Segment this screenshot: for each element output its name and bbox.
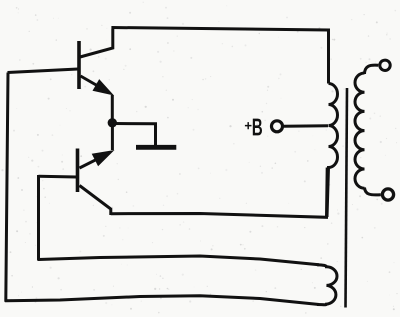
- wire feedback winding bottom lead to Q1 base (left rail): [6, 73, 319, 305]
- transistor Q2 emitter lead: [80, 158, 101, 168]
- node A junction dot: [108, 118, 117, 127]
- wire Q2 base to feedback winding top lead: [39, 175, 320, 265]
- transistor Q1 emitter lead: [81, 76, 105, 90]
- transistor Q1 base bar: [77, 41, 81, 89]
- wire node A to ground: [114, 124, 156, 147]
- secondary bottom lead: [365, 188, 381, 195]
- transistor Q1 base lead wire: [8, 69, 79, 73]
- secondary bottom terminal circle: [382, 189, 393, 200]
- wire Q1 emitter to node A: [111, 95, 114, 122]
- transistor Q1 collector lead: [80, 29, 113, 57]
- wire top: Q1 collector to transformer primary top: [111, 28, 328, 84]
- transistor Q2 collector lead: [80, 186, 111, 216]
- transformer T1 feedback winding (2 bumps): [317, 265, 337, 305]
- transistor Q2 base bar: [76, 149, 80, 193]
- +B label: [245, 119, 262, 136]
- transformer T1 core: [346, 88, 348, 308]
- transistor Q1 emitter arrow: [93, 79, 115, 95]
- secondary top lead: [365, 65, 379, 74]
- secondary top terminal circle: [380, 60, 390, 70]
- wire node A down to Q2 emitter: [111, 122, 114, 150]
- wire Q2 collector to transformer primary bottom: [111, 168, 327, 218]
- transformer T1 primary winding (4 bumps, center tapped): [327, 84, 338, 218]
- wire +B to primary center tap: [284, 124, 328, 128]
- ground: [136, 145, 176, 150]
- +B terminal circle: [272, 121, 283, 132]
- transformer T1 secondary winding (6 bumps): [355, 73, 365, 188]
- transistor Q2 base lead wire: [39, 175, 77, 179]
- transistor Q2 emitter arrow: [92, 150, 115, 166]
